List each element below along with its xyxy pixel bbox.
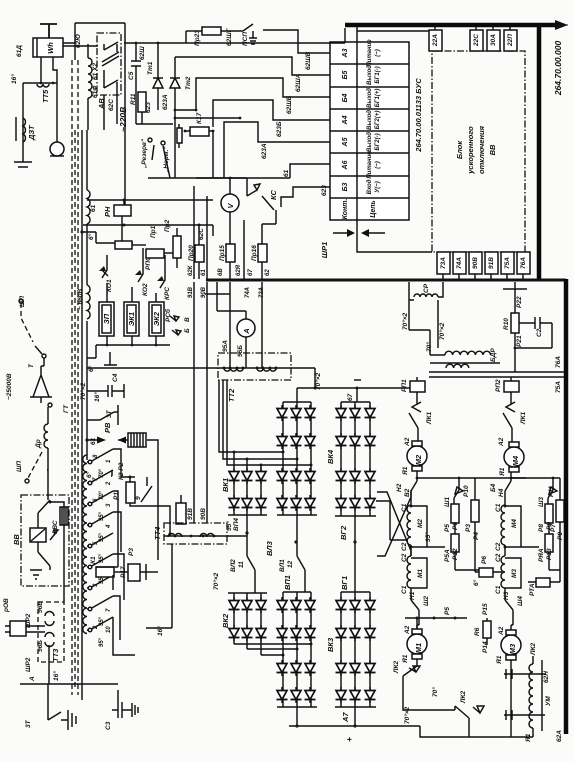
svg-text:Питание: Питание bbox=[367, 151, 373, 179]
svg-text:Питание: Питание bbox=[367, 39, 373, 67]
svg-text:Р5А: Р5А bbox=[444, 549, 451, 562]
svg-text:70°×2: 70°×2 bbox=[79, 382, 87, 400]
svg-text:Ш4: Ш4 bbox=[517, 596, 524, 606]
svg-text:Я1: Я1 bbox=[499, 467, 506, 477]
svg-text:А6: А6 bbox=[342, 160, 349, 170]
svg-text:Тт2: Тт2 bbox=[185, 76, 192, 90]
svg-text:95°: 95° bbox=[99, 553, 105, 563]
svg-text:61: 61 bbox=[90, 204, 97, 212]
svg-text:РП1: РП1 bbox=[401, 379, 408, 392]
svg-text:91В: 91В bbox=[188, 286, 194, 298]
svg-text:Р21: Р21 bbox=[516, 335, 523, 347]
svg-text:А2: А2 bbox=[404, 437, 411, 447]
svg-text:Выход: Выход bbox=[367, 65, 373, 85]
svg-text:70°: 70° bbox=[99, 490, 105, 500]
svg-text:А: А bbox=[242, 328, 251, 334]
svg-text:623Б: 623Б bbox=[276, 121, 283, 137]
svg-text:70°×2: 70°×2 bbox=[212, 572, 220, 590]
svg-text:Цепь: Цепь bbox=[370, 200, 377, 217]
svg-text:Р15: Р15 bbox=[482, 603, 489, 615]
svg-text:Я1: Я1 bbox=[402, 654, 409, 664]
svg-text:70°×2: 70°×2 bbox=[401, 312, 409, 330]
svg-text:К17: К17 bbox=[196, 112, 203, 124]
svg-text:70°×2: 70°×2 bbox=[403, 706, 411, 724]
svg-text:БГ2(-): БГ2(-) bbox=[375, 133, 381, 150]
svg-text:62Ш: 62Ш bbox=[139, 46, 146, 60]
svg-text:61: 61 bbox=[90, 437, 97, 445]
svg-text:70°×2: 70°×2 bbox=[314, 372, 322, 390]
svg-text:РВ: РВ bbox=[103, 422, 112, 433]
svg-text:70°: 70° bbox=[99, 468, 105, 478]
svg-text:ВГ2: ВГ2 bbox=[339, 525, 348, 540]
svg-text:62Ю: 62Ю bbox=[75, 34, 82, 48]
svg-text:ШР1: ШР1 bbox=[320, 242, 329, 259]
svg-text:С4: С4 bbox=[112, 373, 119, 382]
svg-text:КС: КС bbox=[269, 189, 278, 200]
svg-text:Б4: Б4 bbox=[342, 93, 349, 102]
svg-text:У(~): У(~) bbox=[375, 181, 381, 193]
svg-text:Р10: Р10 bbox=[463, 485, 470, 497]
svg-text:К1: К1 bbox=[90, 556, 97, 564]
svg-text:74А: 74А bbox=[456, 257, 463, 269]
svg-text:С1: С1 bbox=[401, 503, 408, 512]
svg-text:ВК3: ВК3 bbox=[326, 637, 335, 652]
svg-text:ЗП: ЗП bbox=[102, 313, 111, 324]
svg-text:70°×2: 70°×2 bbox=[438, 322, 446, 340]
svg-text:М2: М2 bbox=[414, 454, 423, 465]
svg-text:22А: 22А bbox=[432, 34, 439, 47]
svg-text:6°: 6° bbox=[472, 579, 480, 586]
svg-text:623А: 623А bbox=[261, 143, 268, 159]
svg-text:С2: С2 bbox=[495, 542, 502, 551]
svg-text:ТТ2: ТТ2 bbox=[227, 388, 236, 402]
svg-text:С2: С2 bbox=[401, 542, 408, 551]
svg-text:Wh: Wh bbox=[46, 42, 55, 54]
svg-text:75А: 75А bbox=[504, 257, 511, 269]
svg-text:Н4: Н4 bbox=[498, 488, 505, 497]
svg-text:Др: Др bbox=[35, 439, 42, 449]
svg-text:„Резерв": „Резерв" bbox=[141, 138, 148, 169]
svg-text:В: В bbox=[184, 317, 191, 322]
svg-text:Н2: Н2 bbox=[396, 483, 403, 492]
svg-text:ВП4: ВП4 bbox=[233, 518, 240, 531]
svg-text:С2: С2 bbox=[536, 328, 543, 337]
svg-text:62С: 62С bbox=[198, 228, 205, 240]
svg-text:61 Х2: 61 Х2 bbox=[92, 63, 99, 80]
svg-text:16°: 16° bbox=[10, 74, 18, 84]
svg-text:АВ: АВ bbox=[97, 98, 106, 110]
svg-text:Пр15: Пр15 bbox=[219, 245, 226, 261]
svg-text:62А: 62А bbox=[556, 730, 563, 742]
svg-text:95°: 95° bbox=[225, 521, 233, 531]
svg-text:11: 11 bbox=[238, 561, 245, 568]
svg-text:Вход: Вход bbox=[367, 179, 373, 194]
svg-text:Конт.: Конт. bbox=[342, 199, 349, 220]
svg-text:В2: В2 bbox=[404, 488, 411, 497]
svg-text:30А: 30А bbox=[490, 34, 497, 46]
svg-text:СР: СР bbox=[423, 283, 430, 293]
svg-text:95°: 95° bbox=[99, 532, 105, 542]
svg-text:ВЛ1: ВЛ1 bbox=[279, 559, 286, 572]
svg-text:62ШБ: 62ШБ bbox=[286, 95, 293, 114]
svg-text:91В: 91В bbox=[187, 508, 194, 520]
svg-text:67: 67 bbox=[347, 393, 354, 401]
svg-text:С1: С1 bbox=[495, 585, 502, 594]
svg-text:62ШГ: 62ШГ bbox=[226, 27, 233, 46]
svg-text:67: 67 bbox=[248, 269, 254, 276]
svg-text:А2: А2 bbox=[404, 625, 411, 635]
svg-text:95Б: 95Б bbox=[237, 345, 244, 357]
svg-text:С3: С3 bbox=[105, 721, 112, 730]
svg-text:22П: 22П bbox=[507, 34, 514, 47]
svg-text:Р5: Р5 bbox=[444, 607, 451, 615]
svg-text:отключения: отключения bbox=[477, 125, 486, 174]
svg-text:76А: 76А bbox=[555, 356, 562, 368]
svg-text:Н3: Н3 bbox=[503, 591, 510, 600]
svg-text:М4: М4 bbox=[511, 519, 518, 528]
svg-text:Я1: Я1 bbox=[525, 733, 532, 743]
svg-text:70°: 70° bbox=[431, 687, 439, 697]
svg-text:С1: С1 bbox=[495, 503, 502, 512]
svg-text:76А: 76А bbox=[520, 257, 527, 269]
svg-text:ШР2: ШР2 bbox=[25, 657, 32, 672]
svg-text:РЯА: РЯА bbox=[538, 548, 545, 562]
svg-text:62ША: 62ША bbox=[295, 73, 302, 92]
svg-text:С2: С2 bbox=[495, 553, 502, 562]
svg-text:90В: 90В bbox=[201, 286, 207, 298]
svg-text:61Ф: 61Ф bbox=[92, 85, 99, 98]
svg-text:ЛК1: ЛК1 bbox=[426, 412, 433, 425]
svg-text:С2: С2 bbox=[401, 553, 408, 562]
svg-text:62ШВ: 62ШВ bbox=[305, 51, 312, 70]
svg-text:62: 62 bbox=[265, 269, 271, 276]
svg-text:РП2: РП2 bbox=[495, 379, 502, 392]
svg-text:6В: 6В bbox=[218, 268, 224, 276]
svg-text:Р22: Р22 bbox=[516, 296, 523, 308]
svg-text:ускоренного: ускоренного bbox=[466, 126, 475, 175]
svg-text:35°: 35° bbox=[424, 532, 432, 542]
svg-text:R10: R10 bbox=[503, 318, 510, 330]
svg-text:22С: 22С bbox=[473, 34, 480, 47]
svg-text:Б3: Б3 bbox=[342, 182, 349, 191]
svg-text:КРС: КРС bbox=[164, 287, 171, 300]
svg-text:96Б: 96Б bbox=[37, 640, 44, 652]
svg-text:Пр1: Пр1 bbox=[150, 225, 157, 238]
svg-text:Р3: Р3 bbox=[128, 548, 135, 556]
svg-text:Р1: Р1 bbox=[113, 492, 120, 500]
svg-text:R6: R6 bbox=[474, 627, 481, 636]
svg-text:ВК4: ВК4 bbox=[326, 449, 335, 464]
svg-text:10: 10 bbox=[106, 626, 112, 633]
svg-text:М2: М2 bbox=[417, 519, 424, 528]
svg-text:Б4: Б4 bbox=[490, 483, 497, 492]
svg-text:Р14: Р14 bbox=[482, 641, 489, 653]
svg-text:61Д: 61Д bbox=[16, 45, 23, 57]
svg-text:РТА: РТА bbox=[529, 583, 536, 596]
svg-text:16°: 16° bbox=[93, 392, 101, 402]
svg-text:А4: А4 bbox=[342, 115, 349, 125]
svg-text:ЭК2: ЭК2 bbox=[152, 311, 161, 326]
svg-text:R11: R11 bbox=[130, 93, 137, 105]
svg-text:ВГ1: ВГ1 bbox=[340, 576, 349, 590]
svg-text:61: 61 bbox=[201, 269, 207, 276]
svg-text:623А: 623А bbox=[162, 94, 169, 110]
svg-text:Пр23: Пр23 bbox=[194, 30, 201, 46]
svg-text:ВВ: ВВ bbox=[488, 144, 497, 155]
svg-text:91В: 91В bbox=[488, 257, 495, 269]
svg-text:КО2: КО2 bbox=[142, 283, 149, 296]
svg-text:96В: 96В bbox=[37, 601, 44, 613]
svg-text:Р6: Р6 bbox=[481, 556, 488, 564]
svg-text:95°: 95° bbox=[99, 637, 105, 647]
svg-text:Блок: Блок bbox=[455, 140, 464, 160]
svg-text:БГ1(+): БГ1(+) bbox=[375, 89, 381, 108]
svg-text:РСб: РСб bbox=[164, 308, 172, 322]
svg-text:95°: 95° bbox=[99, 511, 105, 521]
svg-text:90В: 90В bbox=[200, 508, 207, 520]
svg-text:РН: РН bbox=[103, 206, 112, 217]
svg-text:ТТ5: ТТ5 bbox=[41, 89, 50, 103]
svg-text:3Т: 3Т bbox=[25, 719, 32, 728]
svg-text:Выход: Выход bbox=[367, 110, 373, 130]
svg-text:Ш2: Ш2 bbox=[423, 596, 430, 606]
svg-text:95А: 95А bbox=[222, 340, 229, 352]
svg-text:623: 623 bbox=[321, 185, 328, 196]
svg-text:УМ: УМ bbox=[545, 696, 552, 706]
svg-text:Н1: Н1 bbox=[409, 591, 416, 600]
svg-text:~ 660В: ~ 660В bbox=[77, 289, 84, 310]
svg-text:Р11: Р11 bbox=[548, 486, 555, 497]
svg-text:95°: 95° bbox=[99, 616, 105, 626]
svg-text:74А: 74А bbox=[245, 287, 251, 298]
svg-text:ДЗТ: ДЗТ bbox=[27, 124, 36, 141]
svg-text:6°: 6° bbox=[87, 233, 95, 240]
svg-text:С1: С1 bbox=[401, 585, 408, 594]
svg-text:ТТ3: ТТ3 bbox=[51, 648, 60, 662]
svg-text:16°: 16° bbox=[52, 671, 60, 681]
svg-text:А5: А5 bbox=[342, 137, 349, 147]
svg-text:ВК2: ВК2 bbox=[221, 613, 230, 628]
svg-text:62С: 62С bbox=[108, 99, 115, 111]
svg-text:Р5: Р5 bbox=[444, 524, 451, 532]
svg-text:БГ2(+): БГ2(+) bbox=[375, 111, 381, 130]
svg-text:12: 12 bbox=[287, 560, 294, 568]
svg-text:ВЛ2: ВЛ2 bbox=[230, 559, 237, 572]
svg-text:~220В: ~220В bbox=[118, 107, 128, 132]
svg-text:90В: 90В bbox=[472, 257, 479, 269]
svg-text:Р3: Р3 bbox=[465, 524, 472, 532]
svg-text:~25000В: ~25000В bbox=[6, 373, 13, 400]
svg-text:М1: М1 bbox=[414, 643, 423, 653]
svg-text:РВС: РВС bbox=[52, 520, 59, 534]
svg-text:Ш1: Ш1 bbox=[444, 497, 451, 507]
svg-text:Я1: Я1 bbox=[402, 466, 409, 476]
svg-text:С5: С5 bbox=[128, 71, 135, 80]
svg-text:рОВ: рОВ bbox=[3, 598, 10, 613]
svg-text:Ш3: Ш3 bbox=[538, 497, 545, 507]
svg-text:ПСП: ПСП bbox=[242, 32, 249, 46]
svg-text:Я1: Я1 bbox=[496, 655, 503, 665]
svg-text:М4: М4 bbox=[511, 455, 520, 466]
svg-text:Б: Б bbox=[184, 328, 191, 333]
svg-text:62Я: 62Я bbox=[236, 264, 242, 276]
svg-text:М3: М3 bbox=[508, 643, 517, 654]
svg-text:ГТ: ГТ bbox=[63, 404, 70, 413]
svg-text:264.70.00.01133 БУС: 264.70.00.01133 БУС bbox=[414, 78, 423, 153]
svg-text:ВК1: ВК1 bbox=[221, 478, 230, 492]
svg-text:Тт1: Тт1 bbox=[147, 61, 154, 75]
svg-text:2: 2 bbox=[106, 481, 112, 486]
svg-text:Р8: Р8 bbox=[538, 524, 545, 532]
svg-text:ВВ: ВВ bbox=[12, 534, 21, 545]
svg-text:ЛК1: ЛК1 bbox=[520, 412, 527, 425]
svg-text:Б5: Б5 bbox=[342, 70, 349, 79]
svg-text:70°: 70° bbox=[425, 342, 433, 352]
svg-text:БГ1(-): БГ1(-) bbox=[375, 66, 381, 83]
svg-text:ВЛ3: ВЛ3 bbox=[265, 540, 274, 556]
svg-text:75А: 75А bbox=[555, 381, 562, 393]
svg-text:61: 61 bbox=[283, 169, 290, 177]
svg-text:ШП: ШП bbox=[16, 461, 23, 472]
svg-text:62Н: 62Н bbox=[543, 671, 550, 683]
svg-text:М3: М3 bbox=[511, 569, 518, 578]
svg-text:(~): (~) bbox=[375, 161, 381, 169]
svg-text:А: А bbox=[29, 676, 36, 682]
svg-text:А3: А3 bbox=[342, 48, 349, 58]
svg-text:ЛК2: ЛК2 bbox=[393, 661, 400, 674]
svg-text:А7: А7 bbox=[341, 712, 350, 723]
svg-text:264.70.00.000: 264.70.00.000 bbox=[553, 41, 563, 97]
svg-text:ВП1: ВП1 bbox=[283, 575, 292, 590]
svg-text:9: 9 bbox=[135, 496, 142, 500]
svg-text:Пр16: Пр16 bbox=[251, 245, 258, 261]
svg-text:М1: М1 bbox=[417, 569, 424, 578]
svg-text:ЭК1: ЭК1 bbox=[127, 312, 136, 326]
svg-text:73А: 73А bbox=[440, 257, 447, 269]
svg-text:А2: А2 bbox=[498, 626, 505, 636]
svg-text:Выход: Выход bbox=[367, 88, 373, 108]
svg-text:+: + bbox=[344, 737, 354, 742]
svg-text:Р7: Р7 bbox=[550, 524, 557, 532]
svg-text:Выход: Выход bbox=[367, 132, 373, 152]
svg-text:А2: А2 bbox=[498, 437, 505, 447]
svg-text:62К: 62К bbox=[188, 264, 194, 276]
svg-text:ЛК2: ЛК2 bbox=[530, 643, 537, 656]
svg-text:ЛК2: ЛК2 bbox=[460, 691, 467, 704]
svg-text:(~): (~) bbox=[375, 49, 381, 57]
